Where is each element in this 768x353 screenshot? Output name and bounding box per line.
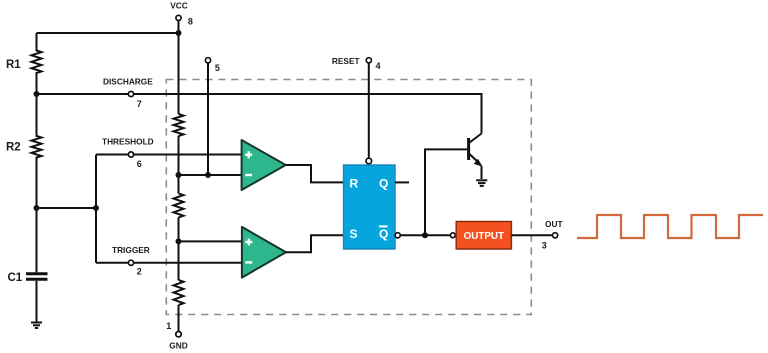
svg-text:RESET: RESET bbox=[332, 56, 360, 66]
wire: chain to node A bbox=[178, 136, 180, 193]
pin 6 terminal bbox=[128, 152, 133, 157]
svg-text:8: 8 bbox=[188, 16, 193, 26]
divider resistor (top) bbox=[174, 114, 184, 136]
svg-text:TRIGGER: TRIGGER bbox=[112, 245, 150, 255]
output square waveform bbox=[577, 215, 763, 238]
svg-text:OUTPUT: OUTPUT bbox=[464, 231, 504, 242]
ground symbol below transistor bbox=[476, 180, 487, 186]
svg-text:3: 3 bbox=[542, 240, 547, 250]
svg-text:6: 6 bbox=[137, 159, 142, 169]
transistor Q1 (discharge, NPN) bbox=[469, 134, 483, 180]
resistor R2 bbox=[32, 94, 42, 208]
wire: chain to node B and bottom resistor bbox=[178, 217, 180, 280]
capacitor C1 bbox=[36, 208, 38, 272]
dashed 555 IC boundary bbox=[166, 80, 531, 315]
wire: node B to comparator + input bbox=[179, 240, 242, 242]
wire: node A to comparator - input bbox=[179, 174, 242, 176]
op-amp threshold comparator bbox=[242, 140, 286, 190]
pin 2 terminal bbox=[128, 260, 133, 265]
svg-text:R1: R1 bbox=[6, 59, 21, 71]
svg-text:THRESHOLD: THRESHOLD bbox=[102, 136, 154, 146]
junction: pin 5 on node A wire bbox=[205, 172, 211, 178]
svg-text:C1: C1 bbox=[8, 272, 23, 284]
junction: node B on chain bbox=[176, 238, 182, 244]
wire: chain to pin 1 bbox=[178, 305, 180, 332]
svg-text:Q: Q bbox=[379, 227, 388, 241]
junction: VCC rail / internal rail bbox=[176, 30, 182, 36]
junction: riser tap bbox=[93, 205, 99, 211]
wire: TRIGGER to comparator - input bbox=[96, 262, 242, 264]
svg-text:1: 1 bbox=[166, 321, 171, 331]
svg-text:OUT: OUT bbox=[545, 219, 563, 229]
wire: internal rail from VCC junction bbox=[178, 33, 180, 114]
svg-text:S: S bbox=[350, 227, 358, 241]
svg-text:7: 7 bbox=[137, 99, 142, 109]
wire: Qbar net to output stage bbox=[400, 234, 450, 236]
svg-text:DISCHARGE: DISCHARGE bbox=[103, 76, 153, 86]
pin 8 terminal (VCC) bbox=[176, 15, 181, 20]
inverter bubble on output stage input bbox=[450, 233, 455, 238]
wire: Q output stub bbox=[395, 181, 409, 183]
svg-text:4: 4 bbox=[376, 61, 381, 71]
wire: RESET down to flip-flop bbox=[368, 63, 370, 158]
pin 7 terminal bbox=[128, 91, 133, 96]
pin 4 terminal bbox=[366, 58, 371, 63]
wire: THRESHOLD to comparator + input bbox=[96, 154, 242, 156]
flip-flop U3 (SR latch) bbox=[344, 165, 396, 249]
inverter bubble on Qbar output bbox=[395, 233, 400, 238]
junction: R2/C1 node bbox=[34, 205, 40, 211]
wire: VCC top rail to R1 bbox=[37, 32, 179, 34]
wire: OUTPUT to pin 3 bbox=[511, 234, 552, 236]
pin 5 terminal bbox=[205, 58, 210, 63]
pin 3 terminal (OUT) bbox=[553, 233, 558, 238]
op-amp trigger comparator bbox=[242, 227, 286, 278]
wire: threshold/trigger riser bbox=[95, 155, 97, 263]
wire: R2/C1 node to threshold/trigger riser bbox=[37, 207, 97, 209]
wire: DISCHARGE rail to transistor collector bbox=[37, 94, 482, 134]
divider resistor (bottom) bbox=[174, 280, 184, 305]
resistor R1 bbox=[32, 33, 42, 94]
wire: threshold comparator output to R input bbox=[286, 165, 344, 182]
junction: R1/R2/discharge node bbox=[34, 91, 40, 97]
wire: trigger comparator output to S input bbox=[286, 235, 344, 252]
svg-text:Q: Q bbox=[379, 176, 388, 190]
ground symbol below C1 bbox=[31, 323, 42, 329]
wire: pin 5 (control) down to node A bbox=[207, 63, 209, 175]
inverter bubble on reset input bbox=[366, 158, 372, 164]
svg-text:5: 5 bbox=[215, 63, 220, 73]
wire: VCC stub down from pin 8 bbox=[178, 21, 180, 34]
svg-text:R2: R2 bbox=[6, 141, 21, 153]
junction: node A on chain bbox=[176, 172, 182, 178]
svg-text:GND: GND bbox=[169, 341, 187, 351]
OUTPUT buffer block bbox=[456, 222, 511, 250]
svg-text:VCC: VCC bbox=[170, 1, 188, 11]
junction: Qbar / transistor base tap bbox=[422, 232, 428, 238]
wire: riser to transistor base bbox=[425, 149, 467, 235]
svg-text:2: 2 bbox=[137, 266, 142, 276]
svg-text:R: R bbox=[350, 176, 359, 190]
pin 1 terminal (GND) bbox=[176, 332, 181, 337]
divider resistor (middle) bbox=[174, 193, 184, 217]
